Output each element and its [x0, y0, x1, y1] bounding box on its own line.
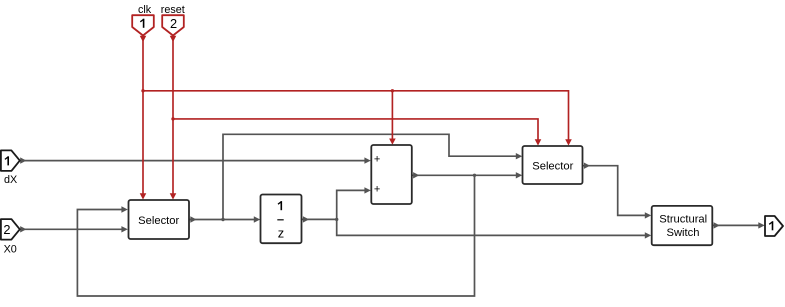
wire junction to StructuralSwitch in2: [337, 219, 652, 238]
wire clk to Selector1 top1 (red): [140, 36, 147, 200]
svg-text:2: 2: [3, 222, 10, 237]
wire Selector1 output to UnitDelay input: [189, 216, 260, 222]
block Selector1: [129, 200, 190, 239]
inport X0: [1, 219, 20, 256]
svg-text:+: +: [374, 153, 380, 165]
inport dX: [1, 150, 20, 186]
wire X0 to Selector1 in2: [20, 226, 128, 232]
block UnitDelay 1/z: [261, 195, 302, 244]
wire reset branch to Selector2 top1 (red): [173, 119, 541, 146]
block Selector2: [523, 146, 583, 184]
outport 1: [765, 216, 783, 236]
wire Sum output to Selector2 in2: [412, 172, 522, 178]
junction on UnitDelay output: [335, 218, 338, 221]
junction on clk wire: [141, 89, 144, 92]
junction on Selector1 output: [221, 218, 224, 221]
wire branch Selector1 output to Selector2 in1: [223, 134, 522, 219]
svg-text:clk: clk: [138, 4, 152, 16]
svg-text:2: 2: [170, 16, 177, 31]
svg-text:Switch: Switch: [667, 227, 700, 239]
svg-text:Structural: Structural: [659, 213, 707, 225]
svg-text:Selector: Selector: [138, 215, 179, 227]
wire StructuralSwitch output to Outport: [712, 222, 764, 228]
block StructuralSwitch: [652, 206, 713, 245]
block Sum: [371, 145, 412, 204]
wire dX to Sum in1: [20, 157, 371, 163]
svg-text:X0: X0: [4, 244, 17, 256]
svg-text:z: z: [278, 226, 284, 241]
inport clk: [132, 4, 154, 36]
wire clk branch to Selector2 top2 (red): [143, 91, 572, 146]
svg-text:reset: reset: [161, 4, 185, 16]
wire clk branch to Sum top (red): [389, 91, 396, 145]
svg-text:Selector: Selector: [532, 160, 573, 172]
wire junction to Sum in2: [337, 187, 371, 219]
wire Selector2 output to StructuralSwitch in1: [583, 163, 652, 219]
wire feedback Sum output to Selector1 in1: [77, 175, 474, 296]
svg-text:dX: dX: [4, 174, 17, 186]
inport reset: [161, 4, 185, 36]
wire reset to Selector1 top2 (red): [170, 36, 177, 200]
junction on clk branch: [391, 89, 394, 92]
junction on Sum output: [473, 174, 476, 177]
svg-text:+: +: [374, 184, 380, 196]
junction on reset wire: [171, 117, 174, 120]
wire UnitDelay output to junction: [302, 216, 337, 222]
